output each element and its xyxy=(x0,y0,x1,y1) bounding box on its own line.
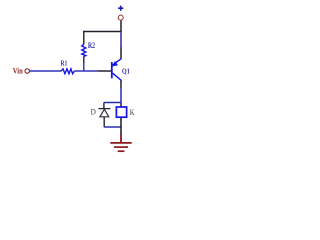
svg-text:R2: R2 xyxy=(88,41,95,50)
svg-text:Vin: Vin xyxy=(13,65,23,75)
svg-text:D: D xyxy=(91,106,96,116)
svg-text:R1: R1 xyxy=(60,59,67,68)
svg-text:Q1: Q1 xyxy=(122,66,130,75)
svg-text:K: K xyxy=(130,107,135,117)
